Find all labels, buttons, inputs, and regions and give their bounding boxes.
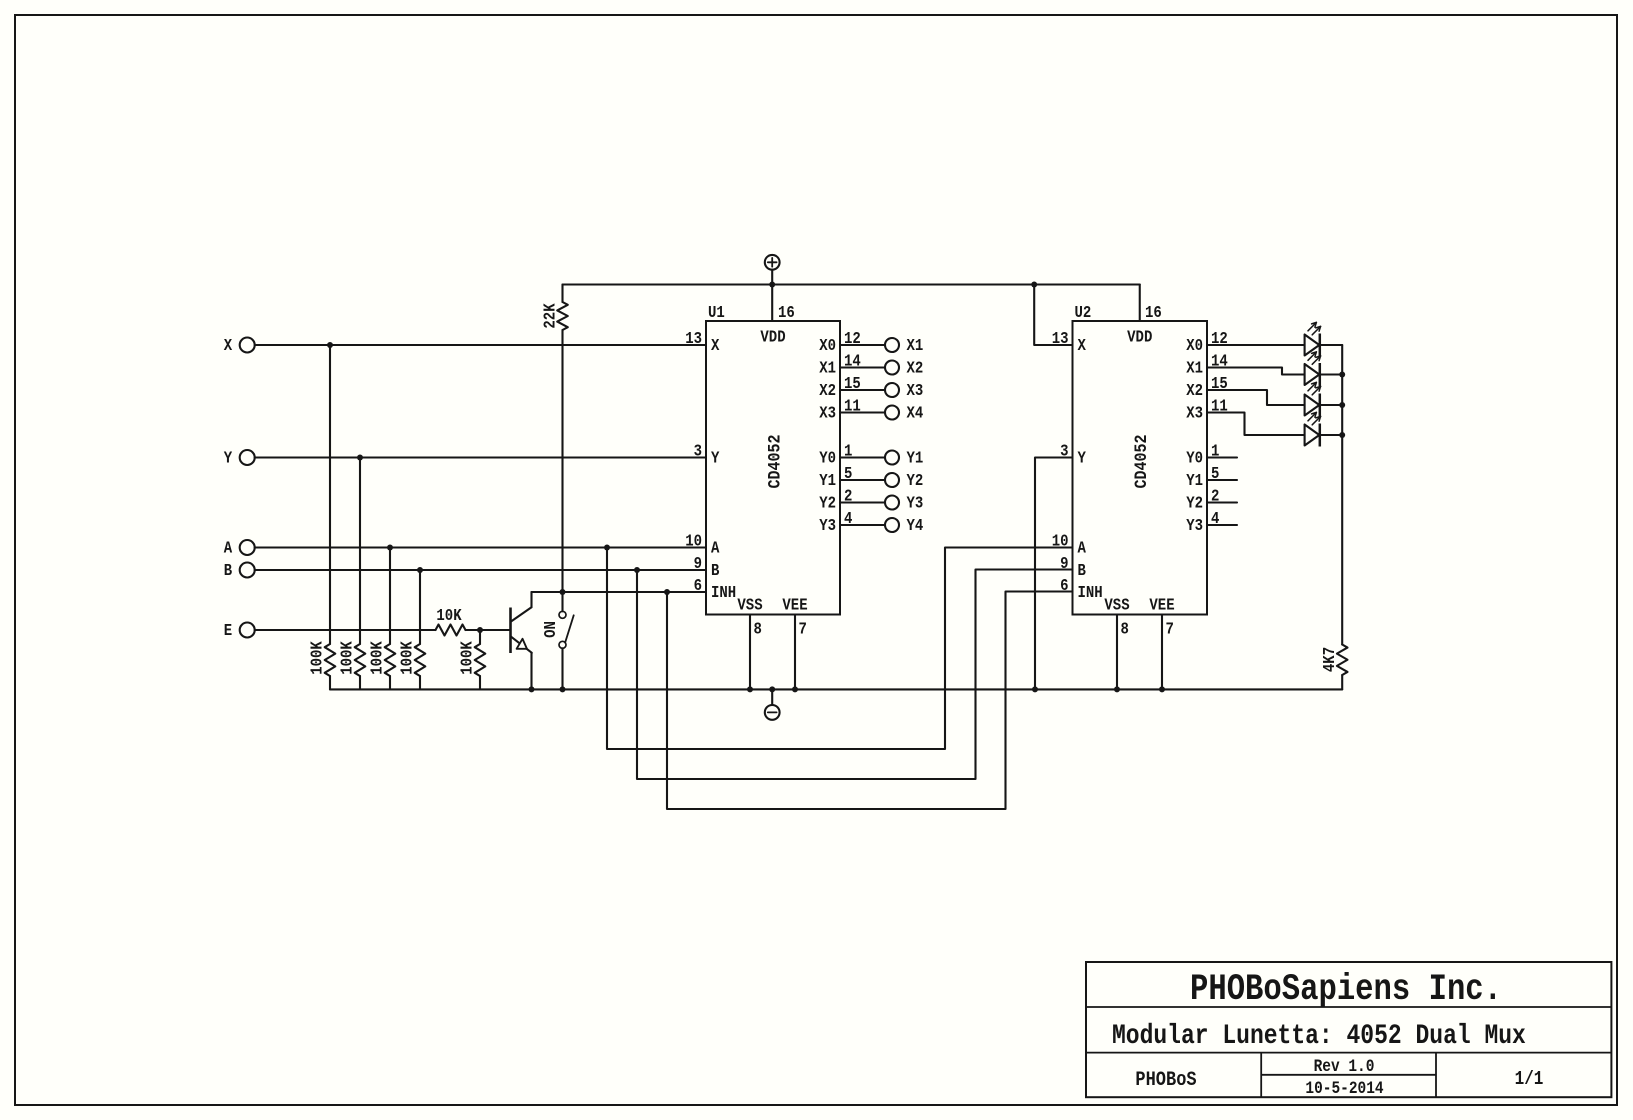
svg-text:3: 3 [1060,441,1068,461]
U2 pin 1 stub [1207,456,1237,458]
U1 pin 2 (Y2) wire [819,486,885,513]
junction U2 VSS / ground bus [1114,686,1120,692]
svg-text:4K7: 4K7 [1320,647,1340,672]
wire Y tap down to R2 [359,458,361,645]
svg-text:13: 13 [1052,329,1069,349]
svg-text:Y: Y [224,448,233,468]
svg-text:Y0: Y0 [819,448,836,468]
wire net B to U2 pin 9 [637,570,1073,780]
terminal X1 [885,336,923,356]
wire net B (terminal B to U1 pin 9) [255,569,706,571]
U2 pin 15 (X2) label [1186,374,1228,401]
svg-text:Y2: Y2 [1186,493,1203,513]
terminal X [224,336,255,356]
svg-text:3: 3 [694,441,702,461]
wire U1 VEE (pin 7) to ground [794,615,796,690]
svg-text:U1: U1 [708,303,725,323]
wire V+ stub to VDD bus and U1 pin 16 [771,270,773,321]
junction U2 X tie / VDD bus [1031,282,1037,288]
U2 pin 12 (X0) label [1186,329,1228,356]
svg-text:9: 9 [694,554,702,574]
wire net INH to U2 pin 6 [667,592,1073,810]
svg-text:VDD: VDD [1127,327,1152,347]
resistor R6 10K [436,606,466,636]
svg-text:X0: X0 [819,336,836,356]
junction LED4 cathode [1339,432,1345,438]
U2 pin 5 stub [1207,479,1237,481]
svg-text:X1: X1 [819,358,836,378]
U1 pin 12 (X0) wire [819,329,885,356]
svg-text:INH: INH [1078,583,1103,603]
svg-text:Y1: Y1 [819,471,836,491]
wire U2 pin 13 (X) tie to V+ [1034,285,1072,346]
junction A feedback [604,545,610,551]
svg-text:100K: 100K [337,641,357,675]
wire VDD bus (top) [563,283,1140,285]
U2 pin 13 (X) [1052,329,1087,356]
svg-text:7: 7 [799,619,807,639]
terminal B [224,561,255,581]
U1 pin 6 (INH) [694,576,737,603]
title text author [1135,1068,1196,1092]
svg-text:PHOBoS: PHOBoS [1135,1068,1196,1092]
svg-text:X: X [1078,336,1087,356]
svg-text:Rev 1.0: Rev 1.0 [1314,1057,1375,1077]
wire net INH (Q1 collector / 22K / switch to U1 pin 6) [532,591,707,593]
resistor R5 100K [457,641,485,690]
wire U2 VDD drop (pin 16) [1139,285,1141,322]
power symbol V- (minus) [765,705,780,720]
junction U2 VEE / ground bus [1159,686,1165,692]
junction U1 VSS / ground bus [747,686,753,692]
terminal X4 [885,403,923,423]
svg-text:Y4: Y4 [907,516,924,536]
terminal Y2 [885,471,923,491]
svg-text:100K: 100K [367,641,387,675]
svg-text:100K: 100K [307,641,327,675]
U1 pin 3 (Y) [694,441,720,468]
transistor Q1 (NPN) [511,592,532,689]
svg-text:VEE: VEE [1149,595,1174,615]
resistor R3 100K [367,641,395,690]
junction switch / ground bus [560,686,566,692]
svg-text:9: 9 [1060,554,1068,574]
svg-text:4: 4 [844,509,852,529]
svg-text:100K: 100K [457,641,477,675]
U2 pin 2 (Y2) label [1186,486,1219,513]
wire R6 to Q1 base [466,629,510,631]
U1 pin 9 (B) [694,554,720,581]
title text revision [1314,1057,1375,1077]
wire B tap down to R4 [419,570,421,644]
wire X tap down to R1 [329,345,331,644]
title text date [1305,1079,1384,1099]
wire net A (terminal A to U1 pin 10) [255,546,706,548]
U2 pin 11 (X3) label [1186,396,1228,423]
svg-text:16: 16 [778,303,795,323]
wire net A to U2 pin 10 [607,548,1073,750]
svg-text:VEE: VEE [782,595,807,615]
U2 pin 1 (Y0) label [1186,441,1219,468]
U2 pin 6 (INH) [1060,576,1103,603]
svg-text:X3: X3 [907,381,924,401]
svg-text:E: E [224,621,232,641]
junction U1 VEE / ground bus [792,686,798,692]
svg-text:X2: X2 [819,381,836,401]
svg-text:Modular Lunetta: 4052 Dual Mux: Modular Lunetta: 4052 Dual Mux [1112,1020,1526,1052]
junction X/R1 [327,342,333,348]
U2 pin 9 (B) [1060,554,1086,581]
U2 pin 2 stub [1207,501,1237,503]
wire U2 pin 3 (Y) tie to ground [1035,458,1073,690]
svg-text:22K: 22K [540,303,560,329]
junction E/R5 [477,627,483,633]
terminal X2 [885,358,923,378]
op IC U2 CD4052 body [1073,303,1208,639]
svg-text:Y2: Y2 [819,493,836,513]
svg-text:11: 11 [844,396,861,416]
power symbol V+ (plus) [765,255,780,270]
switch S1 ON (INH to ground) [541,592,574,689]
U1 pin 4 (Y3) wire [819,509,885,536]
terminal Y3 [885,493,923,513]
wire U2 VEE (pin 7) to ground [1161,615,1163,690]
svg-text:VDD: VDD [760,327,785,347]
resistor R7 22K (VDD pull-up to INH node) [540,285,567,593]
svg-text:X1: X1 [1186,358,1203,378]
U2 pin 3 (Y) [1060,441,1086,468]
wire U2 VSS (pin 8) to ground [1116,615,1118,690]
svg-text:X3: X3 [1186,403,1203,423]
U2 pin 10 (A) [1052,531,1087,558]
svg-text:Y3: Y3 [819,516,836,536]
LED D2 [1305,352,1321,386]
svg-text:X: X [711,336,720,356]
svg-text:Y2: Y2 [907,471,924,491]
title text company [1190,970,1502,1011]
svg-text:X: X [224,336,233,356]
wire U2 X1 to LED2 [1207,368,1305,375]
svg-text:Y3: Y3 [1186,516,1203,536]
LED D1 [1305,322,1321,356]
junction Y/R2 [357,455,363,461]
title text drawing name [1112,1020,1526,1052]
U2 pin 4 (Y3) label [1186,509,1219,536]
U1 pin 5 (Y1) wire [819,464,885,491]
svg-text:Y: Y [1078,448,1087,468]
junction INH feedback [664,589,670,595]
U2 pin 14 (X1) label [1186,351,1228,378]
junction INH/22K/switch [560,589,566,595]
wire A tap down to R3 [389,548,391,645]
svg-text:A: A [711,538,720,558]
svg-text:10-5-2014: 10-5-2014 [1305,1079,1384,1099]
svg-text:U2: U2 [1075,303,1092,323]
U1 pin 1 (Y0) wire [819,441,885,468]
U1 pin 11 (X3) wire [819,396,885,423]
junction A/R3 [387,545,393,551]
resistor R1 100K [307,641,335,690]
resistor R8 4K7 [1320,645,1348,690]
svg-text:ON: ON [541,621,561,638]
wire LED cathodes to R8 column [1320,345,1342,645]
svg-text:16: 16 [1145,303,1162,323]
terminal X3 [885,381,923,401]
junction U2 Y tie / ground bus [1032,686,1038,692]
wire U2 X0 to LED1 [1207,344,1305,346]
svg-text:Y1: Y1 [1186,471,1203,491]
svg-text:Y3: Y3 [907,493,924,513]
svg-text:8: 8 [1121,619,1129,639]
svg-text:X0: X0 [1186,336,1203,356]
wire net X (terminal X to U1 pin 13) [255,344,706,346]
svg-text:5: 5 [844,464,852,484]
svg-text:15: 15 [844,374,861,394]
wire E tap down to R5 [479,630,481,644]
terminal Y4 [885,516,923,536]
svg-text:PHOBoSapiens Inc.: PHOBoSapiens Inc. [1190,970,1502,1011]
terminal Y [224,448,255,468]
svg-text:1: 1 [844,441,852,461]
svg-text:INH: INH [711,583,736,603]
U1 pin 10 (A) [685,531,720,558]
svg-text:A: A [224,538,233,558]
svg-text:1/1: 1/1 [1515,1069,1544,1091]
resistor R2 100K [337,641,365,690]
svg-text:100K: 100K [397,641,417,675]
U2 pin 5 (Y1) label [1186,464,1219,491]
U1 pin 13 (X) [685,329,720,356]
LED D4 [1305,412,1321,446]
junction V- / ground bus [769,686,775,692]
terminal E [224,621,255,641]
junction B feedback [634,567,640,573]
svg-text:CD4052: CD4052 [764,435,785,489]
svg-text:B: B [224,561,232,581]
junction V+ / VDD bus [769,282,775,288]
terminal Y1 [885,448,923,468]
svg-text:13: 13 [685,329,702,349]
junction Q1 emitter / ground bus [529,686,535,692]
svg-text:CD4052: CD4052 [1131,435,1152,489]
svg-text:Y: Y [711,448,720,468]
svg-text:X4: X4 [907,403,924,423]
junction LED2 cathode [1339,372,1345,378]
U1 pin 15 (X2) wire [819,374,885,401]
resistor R4 100K [397,641,425,690]
wire U2 X2 to LED3 [1207,390,1305,405]
wire net Y (terminal Y to U1 pin 3) [255,456,706,458]
U2 pin 4 stub [1207,524,1237,526]
svg-text:6: 6 [1060,576,1068,596]
junction LED3 cathode [1339,402,1345,408]
terminal A [224,538,255,558]
wire U1 VSS (pin 8) to ground [749,615,751,690]
svg-text:Y1: Y1 [907,448,924,468]
title text sheet [1515,1069,1544,1091]
svg-text:X2: X2 [1186,381,1203,401]
wire net E (terminal E to R6) [255,629,436,631]
op IC U1 CD4052 body [706,303,840,639]
svg-text:B: B [711,561,719,581]
LED D3 [1305,382,1321,416]
svg-text:Y0: Y0 [1186,448,1203,468]
junction B/R4 [417,567,423,573]
svg-text:B: B [1078,561,1086,581]
svg-text:6: 6 [694,576,702,596]
svg-text:X1: X1 [907,336,924,356]
wire ground bus (bottom) [330,688,1342,690]
svg-text:X2: X2 [907,358,924,378]
svg-text:12: 12 [844,329,861,349]
svg-text:2: 2 [844,486,852,506]
svg-text:10: 10 [685,531,702,551]
U1 pin 14 (X1) wire [819,351,885,378]
svg-text:10: 10 [1052,531,1069,551]
svg-text:VSS: VSS [1104,595,1129,615]
wire U2 X3 to LED4 [1207,413,1305,436]
svg-text:A: A [1078,538,1087,558]
svg-text:8: 8 [754,619,762,639]
svg-text:14: 14 [844,351,861,371]
wire V- stub to ground bus [771,689,773,705]
svg-text:7: 7 [1166,619,1174,639]
svg-text:X3: X3 [819,403,836,423]
svg-text:10K: 10K [436,606,462,626]
svg-text:VSS: VSS [737,595,762,615]
